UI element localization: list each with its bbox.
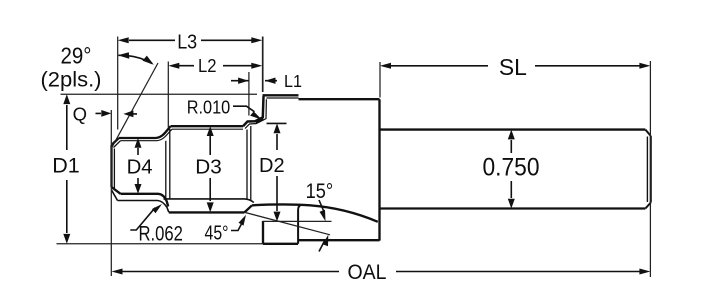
- L3/L2 right extension line: [262, 37, 264, 93]
- flange top edge: [299, 98, 380, 100]
- front face second edge line: [113, 149, 115, 189]
- thin reference line bottom (D1 lower): [57, 243, 264, 245]
- svg-text:45°: 45°: [205, 223, 229, 245]
- part outline: top front chamfer: [112, 138, 119, 145]
- bottom chamfer second line: [112, 190, 118, 201]
- shank right face inner line: [646, 137, 648, 203]
- flange right edge: [378, 99, 380, 240]
- dimension D3: [207, 126, 214, 212]
- front face extension line: [110, 110, 112, 276]
- D4 top edge: [119, 137, 156, 139]
- dimension OAL: [112, 269, 651, 275]
- shank top edge: [380, 128, 646, 130]
- D2 top tick: [267, 122, 287, 124]
- svg-text:R.062: R.062: [138, 221, 183, 245]
- shank bottom edge: [381, 207, 646, 209]
- tab bottom edge: [263, 243, 298, 245]
- shank right chamfer top: [645, 130, 650, 136]
- 15 degree line B sloped: [245, 212, 330, 234]
- tab left edge: [262, 221, 264, 244]
- ledge under flange: [298, 239, 379, 241]
- dimension D1: [63, 94, 70, 243]
- D3 bottom edge: [169, 211, 245, 213]
- svg-text:L2: L2: [198, 55, 217, 76]
- svg-text:Q: Q: [73, 103, 87, 124]
- jog second edge line: [245, 99, 266, 128]
- dimension L1: [231, 78, 277, 84]
- 29 degree angle arc with arrows: [118, 52, 154, 65]
- D4 top second edge line: [121, 140, 158, 142]
- svg-text:D1: D1: [52, 155, 80, 178]
- 45 degree ramp: [245, 205, 253, 212]
- L3 left extension line (chamfer end): [117, 37, 119, 130]
- arrow up to line B (15 degree witness): [319, 235, 328, 252]
- dimension D4: [135, 138, 142, 194]
- D3 top second edge line: [172, 128, 243, 130]
- right extension line (SL / OAL): [649, 61, 651, 277]
- chamfer second edge line: [114, 141, 121, 148]
- lip top edge: [263, 94, 299, 96]
- dimension L2: [168, 63, 262, 69]
- ramp D4 to D3 top: [156, 126, 171, 138]
- dimension SL: [380, 63, 650, 69]
- dimension D2: [274, 123, 281, 221]
- svg-text:(2pls.): (2pls.): [41, 69, 102, 92]
- step verticals between D3 and flange: [246, 130, 248, 199]
- D3 top edge: [171, 125, 244, 127]
- D4 bottom flat outline: [118, 201, 169, 213]
- relief curve to flange edge: [252, 205, 378, 222]
- lip second edge line: [266, 97, 298, 99]
- SL left extension line: [379, 62, 381, 98]
- bottom front chamfer: [112, 187, 121, 194]
- svg-text:0.750: 0.750: [483, 154, 540, 182]
- svg-text:29°: 29°: [61, 43, 92, 69]
- tab right edge full height: [298, 205, 301, 244]
- step verticals between D4 and D3: [165, 141, 167, 199]
- svg-text:OAL: OAL: [348, 261, 387, 284]
- L1 left extension line: [248, 72, 250, 116]
- part outline: front face: [110, 145, 112, 187]
- thin reference line top (D1 upper): [61, 93, 258, 95]
- svg-text:15°: 15°: [306, 180, 334, 203]
- svg-text:D4: D4: [127, 156, 153, 179]
- svg-text:D2: D2: [259, 154, 285, 177]
- jog up from D3 to lip shelf: [243, 96, 264, 126]
- relief interior line above D3 bottom: [164, 199, 254, 203]
- dimension L3: [118, 37, 263, 43]
- L2 left extension line: [167, 62, 169, 128]
- dimension 0.750: [508, 130, 515, 209]
- 29 degree angled line: [111, 63, 158, 149]
- svg-text:L3: L3: [177, 31, 197, 54]
- 15 degree line A horizontal: [263, 220, 332, 222]
- shank right face outer: [650, 136, 652, 203]
- svg-text:D3: D3: [195, 156, 222, 179]
- D4 bottom edge line: [121, 194, 169, 207]
- dimension Q: [96, 110, 138, 117]
- ramp second edge line: [157, 129, 172, 141]
- shank right chamfer bottom: [645, 203, 650, 209]
- svg-text:SL: SL: [499, 54, 527, 80]
- jog fillet thickening (R.010 corner): [256, 119, 263, 123]
- svg-text:R.010: R.010: [187, 98, 231, 118]
- svg-text:L1: L1: [284, 71, 302, 91]
